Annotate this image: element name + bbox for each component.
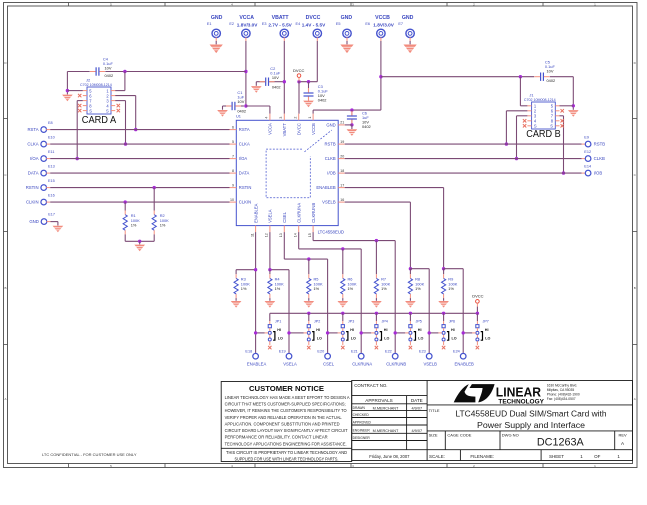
svg-text:DRAWN: DRAWN [353, 406, 366, 410]
svg-text:20: 20 [340, 154, 344, 158]
terminal E17 GND [41, 219, 47, 225]
ground R5 [304, 301, 315, 308]
svg-text:S: S [550, 124, 553, 129]
svg-text:CLKA: CLKA [239, 142, 250, 147]
wire JP4 drop [375, 313, 377, 321]
svg-text:10: 10 [230, 198, 234, 202]
wire CLKRUNA jog right [299, 248, 362, 250]
svg-text:HOWEVER, IT REMAINS THE CUSTOM: HOWEVER, IT REMAINS THE CUSTOMER'S RESPO… [225, 408, 348, 413]
terminal E21 CLKRUNA [358, 353, 364, 359]
terminal E14 I/OB [585, 170, 591, 176]
wire J2 pin3 to CLKA [115, 100, 125, 102]
svg-text:E21: E21 [351, 350, 358, 354]
J2 right pin 4 [111, 105, 115, 107]
svg-text:LO: LO [317, 337, 322, 341]
J2 right pin 2 [111, 95, 115, 97]
ground R6 [338, 301, 349, 308]
junction VCCA / C4 rail [244, 70, 247, 73]
junction JP6 / terminal wire [428, 331, 431, 334]
no-connect J1 pin S right [561, 124, 564, 127]
wire JP7 middle link [463, 332, 472, 334]
terminal E18 ENABLEA [253, 353, 259, 359]
J2 left pin 7 [83, 100, 87, 102]
wire JP7 drop [476, 313, 478, 321]
junction CLKRUNA / R6 [341, 247, 344, 250]
wire R7 top [375, 241, 377, 275]
junction VCCB / C5 rail [379, 75, 382, 78]
wire DVCC horizontal [299, 81, 317, 83]
wire VCCA jog to pin4 [246, 105, 270, 107]
resistor R5 [307, 274, 311, 298]
svg-text:VCCB: VCCB [375, 15, 390, 21]
junction C4 rail / J2 pin1 [123, 70, 126, 73]
svg-text:21: 21 [340, 121, 344, 125]
wire ENABLEA pin11 down [255, 232, 257, 353]
junction R1 R2 ground node [138, 240, 141, 243]
svg-text:CIRCUIT BOARD LAYOUT MAY SIGNI: CIRCUIT BOARD LAYOUT MAY SIGNIFICANTLY A… [225, 428, 348, 433]
svg-text:ENABLEA: ENABLEA [247, 361, 267, 366]
resistor R9 [442, 274, 446, 298]
svg-text:1%: 1% [448, 286, 454, 291]
jumper JP6 [438, 321, 448, 345]
junction CLKRUNB / R7 [375, 239, 378, 242]
svg-text:ENGINEER: ENGINEER [353, 429, 371, 433]
customer notice box [221, 382, 352, 462]
wire J1 pin3 to CLKB [517, 115, 528, 117]
U1 pin 18 I/OB [338, 172, 345, 174]
svg-text:1%: 1% [314, 286, 320, 291]
svg-text:0402: 0402 [547, 78, 556, 83]
svg-text:CLKRUNA: CLKRUNA [352, 361, 372, 366]
svg-text:LO: LO [452, 337, 457, 341]
svg-text:JP4: JP4 [382, 319, 388, 323]
terminal E4 DVCC [313, 29, 321, 37]
wire CLKRUNB pin15 down [312, 232, 314, 241]
junction VSELB / R8 [409, 267, 412, 270]
svg-text:DC1263A: DC1263A [537, 437, 585, 449]
svg-text:RSTB: RSTB [594, 142, 606, 147]
capacitor C5 [535, 73, 550, 81]
wire VSELB jog right [410, 268, 429, 270]
junction RSTA / J2 pin2 [134, 128, 137, 131]
ground R7 [371, 301, 382, 308]
junction CLKIN / R1 [124, 200, 127, 203]
no-connect JP2 LO pin [307, 346, 310, 349]
junction DVCC rail / JP4 [375, 312, 378, 315]
J2 left pin 8 [83, 105, 87, 107]
svg-text:Milpitas, CA 95035: Milpitas, CA 95035 [547, 388, 575, 392]
svg-text:1%: 1% [160, 223, 166, 228]
svg-text:14: 14 [294, 233, 298, 237]
wire J1 pin5 to ground [560, 105, 574, 107]
junction JP5 / terminal wire [394, 331, 397, 334]
wire J1 pin7 to I/OB [560, 115, 564, 117]
svg-text:CHECKED: CHECKED [353, 413, 370, 417]
svg-text:10V: 10V [272, 75, 279, 80]
connector J2 CARD A [87, 87, 111, 114]
svg-text:HI: HI [451, 328, 455, 332]
svg-text:18: 18 [340, 169, 344, 173]
svg-text:CAGE CODE: CAGE CODE [447, 433, 471, 438]
wire CLKRUNA pin14 down [298, 232, 300, 249]
no-connect J1 pin6 [561, 109, 564, 112]
svg-text:HI: HI [277, 328, 281, 332]
svg-text:E6: E6 [365, 22, 370, 26]
junction JP1 / terminal wire [254, 331, 257, 334]
svg-text:12: 12 [265, 233, 269, 237]
wire JP2 drop [308, 313, 310, 321]
J1 left pin 3 [527, 115, 531, 117]
jumper JP3 [338, 321, 348, 345]
svg-text:LTC4558EUD Dual SIM/Smart Card: LTC4558EUD Dual SIM/Smart Card with [456, 408, 607, 418]
svg-text:GND: GND [29, 219, 39, 224]
wire ENABLEB jog right [444, 268, 464, 270]
wire VSELB from pin16 [345, 201, 411, 203]
wire R1 top [124, 202, 126, 210]
ground E17 [53, 226, 64, 233]
U1 pin 9 RSTIN [230, 187, 237, 189]
svg-text:Friday, June 08, 2007: Friday, June 08, 2007 [369, 454, 410, 459]
svg-text:APPROVALS: APPROVALS [365, 398, 393, 403]
J1 left pin 4 [527, 120, 531, 122]
svg-text:16: 16 [340, 198, 344, 202]
svg-text:17: 17 [340, 183, 344, 187]
ground R9 [438, 301, 449, 308]
svg-text:VSELA: VSELA [283, 361, 297, 366]
wire JP5 drop [409, 313, 411, 321]
wire J2 pin2 to RSTA [115, 95, 136, 97]
svg-text:S: S [89, 108, 92, 113]
svg-text:TECHNOLOGY: TECHNOLOGY [498, 399, 544, 406]
wire VCCB jog to pin1 [313, 109, 381, 111]
junction JP3 / terminal wire [326, 331, 329, 334]
svg-text:CUSTOMER NOTICE: CUSTOMER NOTICE [249, 384, 324, 393]
wire J1 pin2 to RSTB [506, 110, 527, 112]
svg-text:E16: E16 [48, 194, 55, 198]
U1 pin 5 CLKA [230, 143, 237, 145]
terminal E1 GND [212, 29, 220, 37]
op-amp U1 LTC4558EUD body [236, 120, 338, 225]
wire R3 jog [236, 269, 256, 271]
wire R5 top [308, 259, 310, 274]
svg-text:10V: 10V [105, 65, 112, 70]
no-connect JP7 LO pin [476, 346, 479, 349]
svg-text:PERFORMANCE OR RELIABILITY. C: PERFORMANCE OR RELIABILITY. CONTACT LINE… [225, 435, 328, 440]
jumper JP1 [265, 321, 275, 345]
svg-text:B: B [4, 286, 6, 290]
svg-text:S: S [106, 108, 109, 113]
U1 pin 21 GND [338, 124, 345, 126]
no-connect JP4 LO pin [375, 346, 378, 349]
svg-text:LINEAR TECHNOLOGY HAS MADE A B: LINEAR TECHNOLOGY HAS MADE A BEST EFFORT… [225, 395, 350, 400]
no-connect J1 pin S left [523, 124, 526, 127]
wire I/OB to terminal [345, 172, 582, 174]
junction CSEL / R5 [307, 257, 310, 260]
junction ENABLEA / R3 [254, 268, 257, 271]
resistor R7 [374, 274, 378, 298]
terminal E6 VCCB [377, 29, 385, 37]
svg-text:CONTRACT NO.: CONTRACT NO. [354, 383, 387, 388]
junction CLKA / J2 pin3 [124, 142, 127, 145]
svg-text:RSTIN: RSTIN [239, 185, 252, 190]
svg-text:GND: GND [402, 15, 414, 21]
svg-text:4: 4 [265, 117, 269, 119]
svg-text:VSELB: VSELB [423, 361, 437, 366]
terminal E2 VCCA [242, 29, 250, 37]
jumper JP5 [405, 321, 415, 345]
svg-text:E11: E11 [48, 150, 54, 154]
svg-text:GND: GND [341, 15, 353, 21]
wire C6 to chip GND pin [345, 124, 352, 126]
svg-text:I/OA: I/OA [239, 156, 248, 161]
terminal E9 RSTB [585, 141, 591, 147]
svg-text:I/OB: I/OB [327, 171, 336, 176]
svg-text:VBATT: VBATT [282, 123, 287, 137]
U1 pin 4 VCCA [269, 114, 271, 121]
wire JP6 drop [443, 313, 445, 321]
svg-text:E17: E17 [48, 212, 55, 216]
wire VBATT vertical [283, 37, 285, 41]
terminal E20 CSEL [325, 353, 331, 359]
junction RSTB / J1 pin2 [505, 142, 508, 145]
svg-text:HI: HI [316, 328, 320, 332]
no-connect J2 pin8 [78, 104, 81, 107]
J1 right pin 6 [555, 110, 559, 112]
wire JP6 middle link [429, 332, 438, 334]
wire J2 pin1 to VCCA rail [115, 90, 125, 92]
svg-text:1%: 1% [415, 286, 421, 291]
J1 left pin 2 [527, 110, 531, 112]
J1 left pin S [527, 125, 531, 127]
wire E24 stub [462, 352, 464, 355]
wire R2 top [153, 188, 155, 211]
resistor R6 [341, 274, 345, 298]
svg-text:DATA: DATA [239, 171, 250, 176]
svg-text:LO: LO [278, 337, 283, 341]
svg-text:E22: E22 [385, 350, 392, 354]
wire CLKB to terminal [345, 158, 582, 160]
svg-text:E2: E2 [229, 22, 234, 26]
wire E19 stub [288, 352, 290, 355]
svg-text:A: A [4, 397, 6, 401]
wire DATA [46, 172, 50, 174]
svg-text:ENABLEB: ENABLEB [316, 185, 336, 190]
svg-text:DVCC: DVCC [293, 68, 304, 73]
capacitor C6 [347, 111, 357, 124]
wire R8 top [409, 269, 411, 275]
svg-text:SUPPLIED FOR USE WITH LINEAR T: SUPPLIED FOR USE WITH LINEAR TECHNOLOGY … [235, 456, 339, 461]
svg-text:M.MERCHANT: M.MERCHANT [373, 429, 399, 433]
wire CSEL pin13 down [283, 232, 285, 259]
svg-text:3: 3 [279, 117, 283, 119]
no-connect J2 pin S right [117, 109, 120, 112]
svg-text:DVCC: DVCC [306, 15, 321, 21]
resistor R2 [152, 211, 156, 235]
svg-text:DATE: DATE [411, 398, 423, 403]
ground R8 [405, 301, 416, 308]
ground E1 [210, 45, 223, 54]
wire DVCC down [476, 303, 478, 306]
wire E22 stub [394, 352, 396, 355]
J1 left pin 1 [527, 105, 531, 107]
U1 pin 10 CLKIN [230, 201, 237, 203]
terminal E24 ENABLEB [460, 353, 466, 359]
wire RSTIN [46, 187, 50, 189]
ground E7 [404, 45, 417, 54]
capacitor C2 [260, 78, 275, 86]
wire JP3 middle link [328, 332, 338, 334]
junction JP4 / terminal wire [360, 331, 363, 334]
svg-text:CARD A: CARD A [82, 115, 117, 126]
resistor R4 [268, 274, 272, 298]
junction JP2 / terminal wire [287, 331, 290, 334]
wire VCCA vertical [245, 37, 247, 41]
svg-text:4/9/07: 4/9/07 [412, 407, 423, 411]
wire C6 vertical [351, 110, 353, 116]
no-connect J2 pin4 [117, 104, 120, 107]
svg-text:2: 2 [294, 117, 298, 119]
junction DVCC rail / JP3 [341, 312, 344, 315]
terminal E19 VSELA [286, 353, 292, 359]
wire C1 rail [236, 105, 244, 107]
svg-text:VERIFY PROPER AND RELIABLE OPE: VERIFY PROPER AND RELIABLE OPERATION IN … [225, 415, 343, 420]
svg-text:E23: E23 [419, 350, 426, 354]
DVCC rail testpoint [476, 300, 480, 304]
svg-text:1%: 1% [381, 286, 387, 291]
jumper JP4 [371, 321, 381, 345]
junction VBATT / C2 [283, 80, 286, 83]
ground C6 [347, 129, 358, 136]
svg-text:1.8V/3.0V: 1.8V/3.0V [373, 22, 394, 27]
svg-text:JP6: JP6 [449, 319, 455, 323]
svg-text:0402: 0402 [362, 124, 371, 129]
J2 right pin 3 [111, 100, 115, 102]
svg-text:6: 6 [232, 125, 234, 129]
terminal E11 I/OA [41, 156, 47, 162]
wire J2 pin5 to ground [67, 90, 82, 92]
svg-text:RSTA: RSTA [27, 127, 38, 132]
wire DVCC to pin2 [298, 77, 300, 81]
resistor R3 [234, 274, 238, 298]
svg-text:LO: LO [485, 337, 490, 341]
wire RSTB to terminal [345, 143, 582, 145]
svg-text:E1: E1 [207, 22, 212, 26]
ground J2 [62, 95, 73, 102]
wire CLKIN [46, 201, 50, 203]
no-connect JP5 LO pin [409, 346, 412, 349]
junction CLKB / J1 pin3 [515, 157, 518, 160]
J1 right pin 5 [555, 105, 559, 107]
svg-text:10V: 10V [237, 99, 244, 104]
svg-text:U1: U1 [236, 114, 241, 119]
wire E21 stub [360, 352, 362, 355]
no-connect J2 pin6 [78, 94, 81, 97]
svg-text:FILENAME:: FILENAME: [470, 454, 494, 459]
svg-text:CLKRUNB: CLKRUNB [386, 361, 406, 366]
svg-text:0402: 0402 [272, 84, 281, 89]
svg-text:M.MERCHANT: M.MERCHANT [373, 407, 399, 411]
svg-text:E4: E4 [296, 22, 301, 26]
J2 right pin S [111, 110, 115, 112]
svg-text:A: A [634, 397, 636, 401]
svg-text:HI: HI [418, 328, 422, 332]
junction C6 / GND pin [350, 123, 353, 126]
svg-text:REV: REV [618, 433, 627, 438]
wire JP3 drop [342, 313, 344, 321]
junction DVCC node [297, 80, 300, 83]
wire C5 right to ground [572, 77, 574, 110]
wire C6 to ground [351, 125, 353, 129]
svg-text:SHEET: SHEET [549, 454, 564, 459]
svg-text:CLKB: CLKB [594, 156, 605, 161]
svg-text:RSTB: RSTB [325, 142, 336, 147]
svg-text:15: 15 [308, 233, 312, 237]
U1 pin 15 CLKRUNB [312, 226, 314, 233]
svg-text:1%: 1% [348, 286, 354, 291]
svg-text:DATA: DATA [28, 171, 39, 176]
svg-text:1: 1 [308, 117, 312, 119]
svg-text:1.4V - 5.5V: 1.4V - 5.5V [302, 22, 326, 27]
svg-text:E12: E12 [584, 150, 591, 154]
svg-text:VCCA: VCCA [268, 123, 273, 135]
wire VSELA jog right [270, 269, 289, 271]
svg-text:E24: E24 [453, 350, 460, 354]
svg-text:E20: E20 [317, 350, 324, 354]
svg-text:E9: E9 [584, 136, 589, 140]
wire E1 to ground [215, 37, 217, 41]
no-connect JP3 LO pin [341, 346, 344, 349]
svg-text:RSTA: RSTA [239, 127, 250, 132]
terminal E7 GND [406, 29, 414, 37]
wire E17 to ground [47, 221, 51, 223]
U1 pin 12 VSELA [269, 226, 271, 233]
svg-text:E7: E7 [398, 22, 403, 26]
terminal E16 CLKIN [41, 199, 47, 205]
svg-text:CLKRUNB: CLKRUNB [311, 203, 316, 223]
svg-text:DVCC: DVCC [296, 123, 301, 135]
svg-text:CSEL: CSEL [323, 361, 335, 366]
terminal E15 RSTIN [41, 185, 47, 191]
svg-text:OF: OF [594, 454, 601, 459]
svg-text:7: 7 [232, 154, 234, 158]
ground C2 [251, 86, 262, 93]
svg-text:DESIGNER: DESIGNER [353, 436, 371, 440]
svg-text:SCALE:: SCALE: [429, 454, 445, 459]
U1 pin 1 VCCB [312, 114, 314, 121]
wire R4 bottom [269, 298, 271, 301]
J1 right pin 7 [555, 115, 559, 117]
svg-text:0402: 0402 [318, 98, 327, 103]
wire JP5 middle link [395, 332, 405, 334]
no-connect J1 pin4 [523, 119, 526, 122]
svg-text:HI: HI [485, 328, 489, 332]
svg-text:19: 19 [340, 140, 344, 144]
junction DVCC rail / JP2 [307, 312, 310, 315]
wire E7 to ground [409, 37, 411, 41]
wire DVCC vertical [316, 37, 318, 41]
svg-text:SIZE: SIZE [429, 433, 438, 438]
svg-text:CLKRUNA: CLKRUNA [296, 203, 301, 223]
U1 pin 8 DATA [230, 172, 237, 174]
resistor R8 [408, 274, 412, 298]
svg-text:1%: 1% [241, 286, 247, 291]
U1 pin 14 CLKRUNA [298, 226, 300, 233]
wire E5 to ground [346, 37, 348, 41]
svg-text:CLKB: CLKB [325, 156, 336, 161]
wire R9 top [443, 269, 445, 275]
terminal E8 RSTA [41, 127, 47, 133]
junction DVCC rail / JP6 [442, 312, 445, 315]
